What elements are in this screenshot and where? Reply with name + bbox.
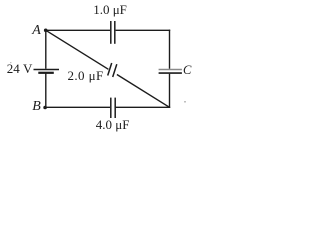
wire diagonal lower segment C2 to corner	[117, 75, 170, 108]
wire right upper segment	[169, 30, 171, 69]
node B label	[32, 99, 41, 115]
capacitor C right plates	[159, 70, 182, 74]
wire top-left segment A to C1	[46, 29, 110, 31]
node A label	[32, 23, 41, 39]
capacitor value label 2.0 uF	[68, 68, 104, 84]
speck artifact above 24 V	[10, 62, 11, 63]
capacitor C4 4.0 uF plates	[111, 98, 115, 118]
wire bottom-right segment	[116, 106, 171, 108]
wire left lower segment battery to B	[45, 73, 47, 108]
node B junction dot	[43, 106, 47, 110]
node C label	[183, 63, 191, 78]
wire right lower segment	[169, 74, 171, 108]
capacitor value label 4.0 uF	[96, 117, 130, 133]
battery value label 24 V	[7, 61, 33, 77]
wire top-right segment C1 to corner	[116, 29, 171, 31]
node A junction dot	[44, 29, 48, 33]
capacitor C2 2.0 uF slanted plates	[108, 63, 117, 77]
capacitor value label 1.0 uF	[93, 2, 127, 18]
speck artifact right	[184, 101, 186, 103]
wire bottom-left segment to B	[46, 106, 110, 108]
capacitor C1 1.0 uF plates	[111, 21, 115, 44]
wire diagonal upper segment A to C2	[46, 30, 109, 69]
battery 24 V plates	[34, 70, 60, 73]
wire left upper segment A to battery	[45, 30, 47, 69]
